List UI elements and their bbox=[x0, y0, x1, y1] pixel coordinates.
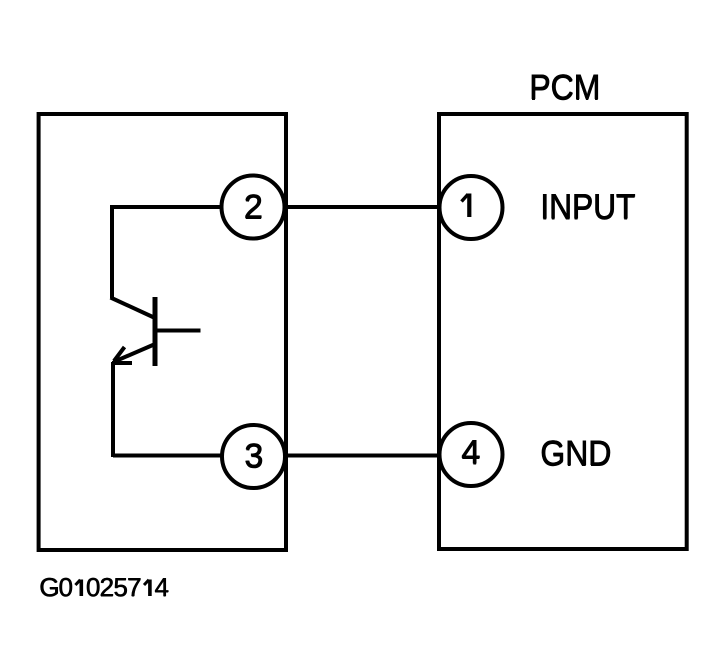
label PCM bbox=[529, 68, 601, 108]
transistor Q1 emitter lead bbox=[114, 345, 155, 363]
wire pin3 to pin4 (GND) bbox=[113, 454, 471, 458]
svg-text:3: 3 bbox=[244, 438, 263, 476]
svg-text:2: 2 bbox=[244, 189, 263, 227]
wire pin2 to pin1 (INPUT) bbox=[112, 205, 471, 209]
wire emitter drop bbox=[111, 362, 115, 457]
emitter arrowhead bbox=[112, 347, 132, 363]
svg-text:INPUT: INPUT bbox=[540, 188, 635, 227]
figure id G01025714 bbox=[39, 572, 169, 603]
transistor Q1 base lead bbox=[155, 329, 201, 333]
transistor Q1 base bar bbox=[153, 297, 158, 366]
pin 2 bbox=[222, 176, 285, 239]
svg-text:GND: GND bbox=[540, 435, 611, 474]
PCM box bbox=[439, 114, 687, 549]
transistor Q1 collector lead bbox=[111, 298, 156, 319]
wire collector drop bbox=[110, 205, 114, 298]
label GND bbox=[540, 434, 612, 474]
svg-text:4: 4 bbox=[461, 434, 480, 472]
label INPUT bbox=[540, 188, 636, 228]
pin 4 bbox=[440, 423, 503, 486]
pin 1 bbox=[440, 176, 503, 239]
component box (transistor sensor) bbox=[39, 114, 286, 550]
pin 3 bbox=[222, 425, 285, 488]
svg-text:PCM: PCM bbox=[529, 69, 600, 108]
